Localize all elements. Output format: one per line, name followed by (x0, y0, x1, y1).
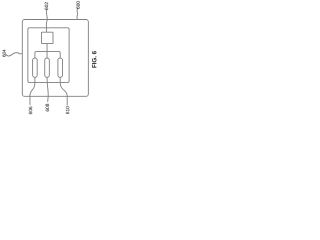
ref numeral 604 (left) (3, 50, 6, 57)
ref numeral 610 (bottom right) (66, 106, 69, 114)
wire tail from right pill to label 610 (60, 77, 67, 105)
leader from label 602 to small square (45, 10, 48, 32)
wire tail from middle pill to label 608 (47, 77, 48, 102)
cell element 608 (middle pill) (45, 58, 50, 77)
bus wire (35, 51, 60, 58)
ref numeral 606 (bottom left) (29, 107, 32, 115)
wire tail from left pill to label 606 (30, 77, 35, 104)
component block 602 (small square) (42, 32, 54, 43)
ref numeral 602 (top center) (45, 2, 48, 10)
ref numeral 608 (bottom middle) (46, 104, 49, 112)
leader from label 604 to outer box left edge (6, 53, 22, 56)
cell element 606 (left pill) (33, 58, 38, 77)
leader from label 600 to outer box (76, 8, 79, 19)
cell element 610 (right pill) (58, 58, 63, 77)
outer box 600 (22, 20, 88, 97)
inner box (28, 28, 69, 83)
figure caption FIG. 6 (92, 51, 96, 67)
wire stem from block 602 to bus (46, 44, 48, 52)
ref numeral 600 (top right) (76, 1, 79, 9)
